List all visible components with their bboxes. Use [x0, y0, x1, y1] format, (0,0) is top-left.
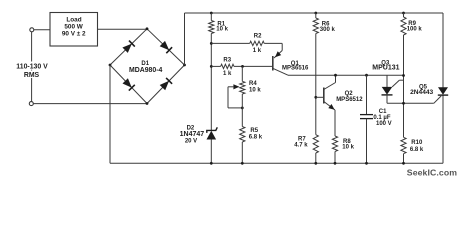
wire: [241, 142, 243, 163]
wire: [366, 75, 368, 114]
wire: [442, 13, 444, 88]
svg-text:SeekIC.com: SeekIC.com: [407, 167, 457, 177]
svg-text:R4: R4: [249, 81, 257, 87]
transistor Q1 emitter: [274, 51, 282, 59]
wire: [281, 43, 283, 50]
node C1 bottom: [365, 162, 368, 165]
node C1 top: [365, 74, 368, 77]
wire: [110, 29, 147, 65]
node bridge top: [146, 27, 149, 30]
transistor Q2 collector: [324, 83, 336, 90]
wire: [366, 119, 368, 164]
transistor Q2 emitter: [324, 102, 335, 111]
svg-text:R5: R5: [250, 128, 258, 134]
svg-text:100 k: 100 k: [407, 27, 423, 33]
svg-text:R10: R10: [411, 140, 423, 146]
svg-text:D1: D1: [141, 61, 149, 67]
svg-text:20 V: 20 V: [185, 138, 197, 144]
wire: [387, 102, 434, 104]
wire: [442, 95, 444, 163]
wire: [241, 94, 243, 127]
node D2 bottom: [210, 162, 213, 165]
resistor R6: [313, 18, 318, 34]
label 110-130 V RMS: [14, 62, 50, 70]
wiper R4 arrow: [233, 84, 239, 89]
svg-text:RMS: RMS: [24, 72, 40, 79]
wire: [110, 162, 443, 164]
wire: [386, 75, 388, 87]
svg-text:10 k: 10 k: [216, 27, 228, 33]
resistor R5: [240, 127, 245, 143]
wire: [147, 29, 185, 65]
node bridge left: [109, 64, 112, 67]
diode D1c bottom-left: [123, 78, 132, 88]
svg-text:0.1 µF: 0.1 µF: [373, 115, 390, 121]
wire: [315, 153, 317, 163]
transistor Q3 bar: [382, 94, 393, 96]
wire: [386, 95, 388, 103]
wire: [211, 65, 220, 67]
svg-text:300 k: 300 k: [320, 27, 336, 33]
node R4 wiper junction: [241, 107, 244, 110]
wire: [227, 87, 229, 108]
svg-text:1N4747: 1N4747: [180, 131, 205, 138]
svg-text:4.7 k: 4.7 k: [294, 143, 308, 149]
node main wire end: [402, 74, 405, 77]
diode D1a top-left: [122, 44, 131, 53]
node R10 bottom: [402, 162, 405, 165]
wire: [241, 66, 243, 81]
svg-text:110-130 V: 110-130 V: [16, 64, 48, 71]
node R7 bottom: [314, 162, 317, 165]
zener D2: [207, 131, 217, 140]
resistor R4: [240, 81, 245, 94]
wire: [210, 34, 212, 131]
node bridge right: [183, 64, 186, 67]
wire: [403, 13, 405, 17]
diode D1b top-right: [160, 41, 170, 50]
svg-text:R2: R2: [254, 33, 262, 39]
wire: [31, 32, 33, 101]
svg-text:MPS6516: MPS6516: [282, 65, 309, 71]
wire: [228, 107, 242, 109]
node R2 tap: [210, 42, 213, 45]
node R1 top: [210, 12, 213, 15]
svg-text:100 V: 100 V: [376, 121, 392, 127]
node R5 bottom: [241, 162, 244, 165]
wire: [403, 154, 405, 164]
svg-text:Load: Load: [66, 17, 81, 24]
svg-text:2N4443: 2N4443: [410, 89, 433, 96]
transistor Q2 bar: [323, 88, 325, 104]
wire: [147, 65, 185, 104]
thyristor Q5 gate: [434, 96, 441, 103]
node R9 top: [402, 12, 405, 15]
resistor R9: [401, 17, 406, 35]
resistor R10: [401, 137, 406, 153]
wire: [403, 35, 405, 137]
wire: [316, 96, 324, 98]
node R3 tap: [210, 65, 213, 68]
input terminal lower: [29, 102, 33, 106]
wire: [210, 140, 212, 164]
svg-text:C1: C1: [379, 109, 387, 115]
resistor R3: [221, 64, 234, 68]
wire: [334, 110, 336, 136]
transistor Q1 bar: [272, 56, 274, 71]
capacitor C1: [360, 114, 373, 116]
resistor R1: [209, 21, 214, 34]
resistor R7: [313, 135, 318, 153]
svg-text:90 V ± 2: 90 V ± 2: [62, 30, 86, 37]
wire: [34, 103, 148, 105]
wire: [34, 29, 50, 31]
node R3-R4 junction: [241, 65, 244, 68]
svg-text:10 k: 10 k: [342, 145, 354, 151]
wire: [334, 152, 336, 164]
svg-text:MPU131: MPU131: [372, 64, 399, 71]
wire: [315, 13, 317, 18]
wire: [98, 28, 148, 30]
thyristor Q5 bar: [438, 94, 448, 96]
node bridge bottom: [146, 102, 149, 105]
transistor Q3 triangle: [382, 87, 393, 95]
svg-text:1 k: 1 k: [223, 71, 232, 77]
svg-text:R3: R3: [223, 58, 231, 64]
node R8 bottom: [334, 162, 337, 165]
wire: [184, 13, 186, 65]
node Q2 collector junction: [334, 74, 337, 77]
resistor R8: [332, 136, 337, 152]
wire: [110, 65, 147, 104]
input terminal upper: [30, 28, 34, 32]
wire: [234, 65, 273, 67]
node Q2 base junction: [314, 96, 317, 99]
transistor Q1 collector: [273, 68, 288, 75]
svg-text:1 k: 1 k: [253, 48, 262, 54]
diode D1d bottom-right: [160, 81, 169, 91]
svg-text:6.8 k: 6.8 k: [410, 147, 424, 153]
wire: [315, 34, 317, 135]
wire: [264, 42, 282, 44]
svg-text:10 k: 10 k: [249, 87, 261, 93]
load box: [50, 13, 98, 47]
wire: [211, 42, 249, 44]
wire: [185, 12, 444, 14]
wire: [288, 74, 404, 76]
thyristor Q5 triangle: [438, 87, 448, 95]
svg-text:MDA980-4: MDA980-4: [129, 67, 162, 74]
svg-text:6.8 k: 6.8 k: [249, 134, 263, 140]
transistor Q3 gate: [392, 80, 399, 87]
node R6 top: [314, 12, 317, 15]
svg-text:R7: R7: [298, 136, 306, 142]
node R10 gate junction: [402, 102, 405, 105]
resistor R2: [250, 41, 265, 45]
wire: [210, 13, 212, 21]
wire: [109, 65, 111, 163]
svg-text:MPS6512: MPS6512: [336, 97, 363, 103]
